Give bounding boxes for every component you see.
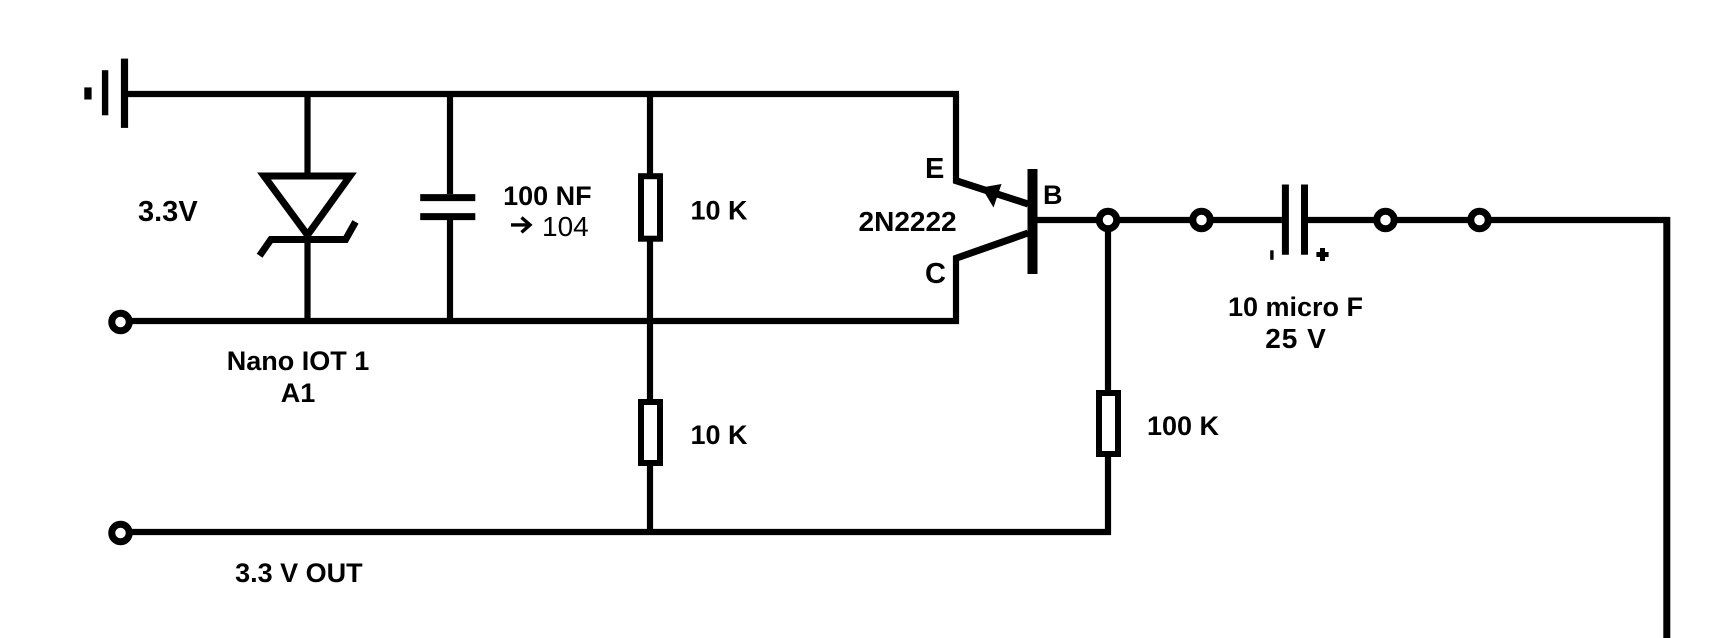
transistor Q1 emitter arrow	[982, 184, 1002, 208]
svg-text:B: B	[1043, 180, 1063, 210]
wire 100K branch	[1105, 220, 1111, 535]
transistor Q1 collector diagonal	[954, 233, 1028, 259]
svg-text:104: 104	[542, 211, 589, 242]
wire base row	[1037, 217, 1282, 223]
svg-text:100 K: 100 K	[1147, 411, 1220, 441]
zener diode D1	[260, 94, 356, 324]
capacitor C2 polarized	[1270, 185, 1328, 262]
transistor Q1 emitter diagonal	[954, 180, 1028, 204]
resistor R3 100K	[1099, 393, 1118, 454]
wire C riser	[953, 256, 959, 324]
node circle base row 3	[1377, 211, 1395, 229]
transistor Q1 base bar	[1028, 169, 1038, 274]
svg-text:C: C	[925, 258, 946, 290]
svg-text:Nano IOT 1: Nano IOT 1	[227, 346, 370, 376]
capacitor C1	[420, 94, 475, 324]
wire bottom rail	[129, 529, 1111, 535]
svg-text:10 K: 10 K	[691, 196, 749, 226]
wire resistor branch vertical	[647, 94, 653, 532]
svg-text:10 micro F: 10 micro F	[1228, 292, 1363, 322]
node terminal circle middle-left	[112, 313, 130, 331]
wire base row right of capacitor	[1308, 217, 1670, 223]
svg-text:3.3 V OUT: 3.3 V OUT	[235, 558, 363, 588]
svg-text:100 NF: 100 NF	[503, 181, 592, 211]
svg-text:2N2222: 2N2222	[859, 206, 957, 237]
svg-text:25 V: 25 V	[1265, 323, 1327, 354]
wire E riser	[953, 94, 959, 183]
svg-text:E: E	[925, 153, 944, 185]
svg-text:3.3V: 3.3V	[138, 196, 198, 228]
node circle base row 2	[1193, 211, 1211, 229]
wire top rail	[126, 91, 959, 97]
node circle base row 1	[1099, 211, 1117, 229]
svg-text:10 K: 10 K	[691, 420, 749, 450]
node terminal circle bottom-left	[112, 524, 130, 542]
svg-text:A1: A1	[281, 378, 316, 408]
resistor R2 10K	[641, 402, 660, 463]
label -> 104	[511, 218, 530, 233]
battery B1	[84, 59, 128, 128]
wire right vertical	[1663, 217, 1670, 638]
resistor R1 10K	[641, 176, 660, 239]
wire middle rail	[129, 318, 959, 324]
node circle base row 4	[1471, 211, 1489, 229]
